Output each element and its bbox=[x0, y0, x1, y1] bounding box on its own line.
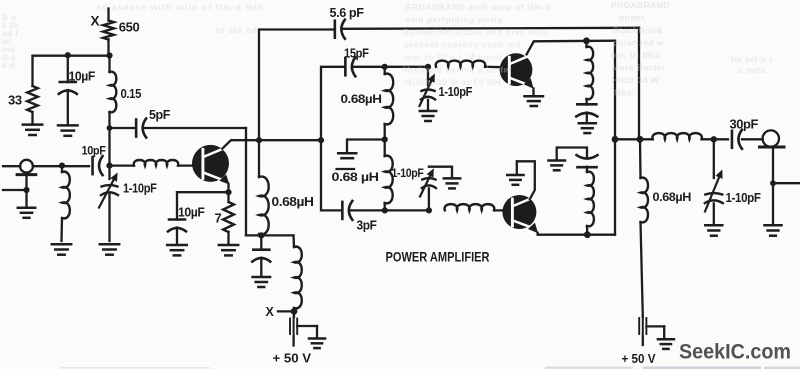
ground below emitter 10uF bbox=[167, 245, 187, 255]
svg-text:re sta od: re sta od bbox=[216, 25, 258, 35]
label 30pF bbox=[730, 118, 759, 132]
svg-text:5.6 pF: 5.6 pF bbox=[330, 6, 365, 20]
svg-text:1-10pF: 1-10pF bbox=[392, 166, 424, 180]
label 10uF (emitter) bbox=[178, 206, 205, 220]
inductor 0.68uH upper (coil stack) bbox=[385, 67, 393, 140]
capacitor decoupling at Q1 tank bbox=[252, 235, 270, 275]
svg-text:5pF: 5pF bbox=[149, 108, 171, 122]
inductor 0.15 choke bbox=[110, 56, 117, 129]
scan artifact bottom edge (decorative) bbox=[60, 366, 800, 369]
inductor RFC to +50V (left) bbox=[294, 235, 302, 317]
capacitor 10uF bias bypass bbox=[59, 56, 77, 124]
inductor Q2 tank bbox=[587, 41, 594, 105]
input connector shield bar bbox=[17, 173, 36, 176]
Q3 collector lead bbox=[517, 161, 535, 199]
Q1 collector lead bbox=[222, 140, 321, 148]
label 10pF bbox=[82, 144, 106, 158]
transistor Q2 bbox=[500, 53, 533, 86]
ground below input choke bbox=[52, 244, 71, 254]
svg-text:PHOABRAND: PHOABRAND bbox=[611, 0, 670, 10]
ground at Q2 emitter bbox=[525, 96, 544, 106]
label 0.68uH (upper stack) bbox=[341, 92, 382, 106]
input shield wire bbox=[3, 173, 30, 208]
label X (top supply point) bbox=[91, 14, 100, 29]
node A junction of 650 resistor, 0.15 choke, bias line bbox=[33, 52, 113, 59]
scan bleed-through text (decorative) bbox=[1, 0, 773, 98]
svg-text:im prt o t: im prt o t bbox=[731, 54, 773, 64]
svg-text:10pF: 10pF bbox=[82, 144, 106, 158]
ground at input connector bbox=[18, 208, 35, 218]
resistor 33 (bias to ground) bbox=[27, 56, 38, 123]
wire 15pF line bbox=[321, 64, 431, 140]
Q3 emitter lead bbox=[528, 223, 615, 235]
Q1 emitter lead bbox=[219, 174, 229, 192]
wire 3pF line bbox=[321, 140, 432, 213]
svg-text:X: X bbox=[266, 305, 275, 319]
svg-text:0.15: 0.15 bbox=[121, 87, 142, 101]
svg-text:33: 33 bbox=[8, 93, 22, 108]
ground below decoupling cap bbox=[253, 277, 271, 287]
wire center tap to ground bbox=[347, 140, 385, 153]
svg-text:BROADBAND with outp of tlm: BROADBAND with outp of tlm-d bbox=[405, 2, 551, 12]
label 7 bbox=[215, 211, 222, 226]
capacitor 5.6pF bbox=[335, 20, 345, 39]
svg-text:1-10pF: 1-10pF bbox=[439, 85, 473, 99]
capacitor 10uF emitter bypass bbox=[168, 192, 186, 243]
svg-text:More Bacter: More Bacter bbox=[612, 63, 666, 73]
label +50 V (left) bbox=[273, 351, 312, 366]
svg-text:0.68µH: 0.68µH bbox=[272, 195, 314, 209]
input connector J1 bbox=[3, 160, 89, 173]
svg-text:me, tri Mhz: me, tri Mhz bbox=[611, 50, 660, 60]
Q1 collector nodes bbox=[256, 137, 324, 143]
node Q2 tank bbox=[583, 37, 590, 44]
svg-text:under.: under. bbox=[619, 13, 647, 23]
svg-text:3pF: 3pF bbox=[357, 219, 378, 233]
node center tap bbox=[382, 136, 388, 142]
label 3pF bbox=[357, 219, 378, 233]
svg-text:7: 7 bbox=[215, 211, 222, 226]
ground below input trimmer bbox=[100, 244, 119, 254]
ground at right battery bbox=[658, 339, 674, 349]
svg-text:me, to 70 s.l. M mprd: me, to 70 s.l. M mprd bbox=[405, 52, 502, 62]
caption POWER AMPLIFIER bbox=[386, 249, 490, 265]
label 15pF bbox=[344, 47, 369, 61]
svg-text:POWER AMPLIFIER: POWER AMPLIFIER bbox=[386, 249, 490, 265]
wire node at 5pF tap bbox=[107, 125, 113, 131]
ground below resistor 7 bbox=[219, 245, 238, 255]
wire base line Q1 bbox=[110, 164, 203, 166]
inductor input shunt choke bbox=[59, 163, 70, 242]
label 1-10pF (output) bbox=[726, 191, 762, 205]
wire X stub bbox=[278, 308, 297, 315]
svg-text:Mhz.: Mhz. bbox=[614, 88, 635, 98]
resistor 650 from X supply bbox=[103, 9, 114, 56]
svg-text:amb perfplding amlty: amb perfplding amlty bbox=[405, 15, 503, 25]
label 0.68uH (right RFC) bbox=[653, 190, 692, 204]
label X (left supply) bbox=[266, 305, 275, 319]
watermark SeekIC.com bbox=[679, 340, 791, 364]
svg-text:0.68µH: 0.68µH bbox=[653, 190, 692, 204]
wire Q2 collector drop / output node bbox=[612, 41, 619, 235]
capacitor Q3 tank bbox=[577, 155, 598, 172]
Q1 emitter node bbox=[177, 189, 232, 195]
label 5.6pF bbox=[330, 6, 365, 20]
label 5pF bbox=[149, 108, 171, 122]
ground at left battery bbox=[309, 339, 325, 349]
label 1-10pF (input) bbox=[123, 181, 157, 195]
ground below Q2 tank cap bbox=[579, 123, 596, 133]
svg-text:Mtdband twelve a bndw: Mtdband twelve a bndw bbox=[403, 65, 511, 75]
resistor 7 emitter bbox=[223, 192, 234, 243]
svg-text:650: 650 bbox=[119, 20, 140, 35]
node B input junction bbox=[106, 128, 112, 179]
svg-text:Hintz 34 W: Hintz 34 W bbox=[612, 75, 659, 85]
node Q3 tank bottom bbox=[584, 231, 591, 238]
capacitor 10pF input coupling bbox=[93, 156, 103, 175]
svg-text:1-10pF: 1-10pF bbox=[726, 191, 762, 205]
ground below resistor 33 bbox=[23, 125, 42, 135]
label 0.68uH (lower stack) bbox=[332, 170, 379, 184]
ground at Q3 collector path bbox=[507, 175, 523, 185]
svg-text:+ 50 V: + 50 V bbox=[622, 351, 656, 366]
inductor Q3 tank bbox=[587, 172, 594, 235]
capacitor 5pF bbox=[136, 119, 146, 138]
svg-text:Bandwidth stated and also hum: Bandwidth stated and also hum bbox=[403, 27, 548, 37]
trimmer 1-10pF input bbox=[99, 173, 118, 242]
svg-text:polarized w: polarized w bbox=[613, 38, 664, 48]
inductor output line bbox=[652, 133, 728, 139]
inductor base Q1 bbox=[134, 160, 179, 166]
inductor base Q3 bbox=[445, 204, 510, 210]
svg-text:30pF: 30pF bbox=[730, 118, 759, 132]
trimmer 1-10pF upper interstage bbox=[420, 67, 436, 110]
svg-text:ed asdnce with outp of tl: ed asdnce with outp of tlm-d mth bbox=[96, 2, 264, 12]
wire 5pF vertical drop bbox=[245, 128, 247, 235]
label 1-10pF (upper interstage) bbox=[439, 85, 473, 99]
svg-text:10µF: 10µF bbox=[69, 70, 96, 84]
transistor Q3 bbox=[502, 195, 536, 229]
wire 5pF line from 0.15 tap bbox=[110, 127, 247, 129]
ground below upper trimmer bbox=[420, 111, 436, 121]
svg-text:Width, 30 W at 50 MH: Width, 30 W at 50 MH bbox=[404, 77, 501, 87]
ground at Q3 tank bbox=[549, 161, 566, 171]
capacitor Q2 tank bbox=[576, 104, 597, 121]
svg-text:0.68µH: 0.68µH bbox=[341, 92, 382, 106]
label 33 bbox=[8, 93, 22, 108]
ground below 10uF bypass bbox=[58, 125, 78, 135]
ground at lower trimmer bbox=[444, 178, 460, 188]
svg-text:a d: a d bbox=[2, 61, 15, 70]
trimmer 1-10pF output bbox=[705, 139, 723, 223]
svg-text:+ 50 V: + 50 V bbox=[273, 351, 312, 366]
wire output line bbox=[615, 136, 653, 143]
label +50V (right) bbox=[622, 351, 656, 366]
capacitor 15pF bbox=[345, 57, 355, 76]
trimmer 1-10pF lower interstage bbox=[420, 167, 452, 211]
output shield wire bbox=[770, 147, 800, 224]
label 0.68uH (Q1 tank) bbox=[272, 195, 314, 209]
svg-text:a mrtd: a mrtd bbox=[738, 66, 766, 75]
svg-text:present improve such md: present improve such md bbox=[404, 40, 521, 50]
capacitor 3pF bbox=[342, 201, 352, 220]
inductor 0.68uH RFC (right) bbox=[640, 139, 648, 316]
wire junction line above decoupling cap bbox=[246, 232, 294, 238]
label 1-10pF (lower stack trimmer) bbox=[392, 166, 424, 180]
output connector J2 bbox=[742, 130, 779, 146]
wire 5.6pF top line bbox=[259, 28, 639, 140]
transistor Q1 bbox=[192, 145, 229, 182]
ground below output trimmer bbox=[705, 225, 722, 235]
inductor 0.68uH Q1 tank bbox=[259, 140, 269, 235]
output connector shield bar bbox=[760, 146, 785, 149]
capacitor 30pF output bbox=[732, 130, 742, 149]
node output trimmer bbox=[711, 136, 717, 142]
label 650 bbox=[119, 20, 140, 35]
ground at output connector bbox=[765, 225, 782, 235]
svg-text:Stachtfried: Stachtfried bbox=[613, 25, 662, 35]
svg-text:1-10pF: 1-10pF bbox=[123, 181, 157, 195]
inductor 0.68uH lower (coil stack) bbox=[385, 140, 393, 211]
svg-text:SeekIC.com: SeekIC.com bbox=[679, 340, 791, 364]
label 0.15 bbox=[121, 87, 142, 101]
battery +50V right feedthrough bbox=[639, 316, 664, 345]
Q2 collector lead bbox=[527, 41, 615, 55]
inductor base Q2 bbox=[436, 61, 507, 68]
label 10uF (bias) bbox=[69, 70, 96, 84]
battery +50V left feedthrough bbox=[290, 317, 317, 346]
svg-text:0.68 µH: 0.68 µH bbox=[332, 170, 379, 184]
svg-text:X: X bbox=[91, 14, 100, 29]
svg-text:10µF: 10µF bbox=[178, 206, 205, 220]
wire Q3 tank top bbox=[557, 148, 587, 160]
svg-text:15pF: 15pF bbox=[344, 47, 369, 61]
ground at center tap bbox=[337, 153, 357, 169]
Q2 emitter lead bbox=[524, 78, 534, 95]
